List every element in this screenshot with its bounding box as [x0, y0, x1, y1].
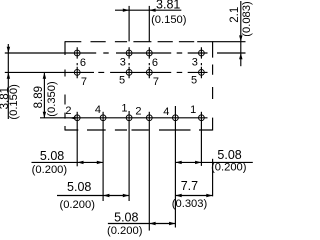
svg-text:5: 5: [191, 75, 197, 87]
arrow 2.1 upper: [239, 35, 242, 41]
vertical centerline col 201.4 (rows): [200, 47, 202, 78]
pad 3 group B: [199, 50, 205, 56]
extension line from pad 4A down: [102, 112, 104, 201]
svg-text:2: 2: [135, 105, 141, 117]
pad 2 group B: [146, 115, 152, 121]
right dimension line 2.1 vertical: [240, 1, 242, 66]
pad 6 group A: [74, 50, 80, 56]
svg-text:(0.200): (0.200): [32, 164, 68, 176]
extension line from pad 4B down: [174, 106, 176, 228]
pad 3 group A: [126, 50, 132, 56]
dimension line 5.08 left chain 1: [32, 161, 103, 163]
body outline right edge (dash-dot): [212, 41, 214, 130]
svg-text:3: 3: [192, 56, 198, 68]
svg-text:(0.200): (0.200): [211, 161, 247, 173]
arrow 5.08 chain3 left: [149, 222, 155, 225]
extension line from pad 2A down: [76, 112, 78, 167]
svg-text:2.1: 2.1: [229, 7, 241, 23]
left dimension line 3.81 vertical: [7, 44, 9, 119]
pad 5 group A: [126, 70, 132, 76]
pad 1 group A: [126, 115, 132, 121]
arrow 5.08 chain3 right: [169, 222, 175, 225]
vertical centerline col 77.2 (rows): [76, 47, 78, 78]
svg-text:(0.200): (0.200): [107, 225, 143, 237]
dimension line 5.08 left chain 2: [57, 195, 129, 197]
body outline top edge (dash-dot): [65, 41, 213, 43]
svg-text:(0.083): (0.083): [241, 1, 253, 37]
bottom row centerline y=117.8: [40, 117, 208, 119]
arrow 7.7 left: [175, 194, 181, 197]
svg-text:4: 4: [95, 104, 101, 116]
svg-text:(0.303): (0.303): [172, 198, 208, 210]
svg-text:6: 6: [80, 57, 86, 69]
svg-text:(0.150): (0.150): [8, 84, 20, 120]
dimension line 5.08 bottom chain 3: [108, 223, 176, 225]
top dim extension line from pad 6B up: [148, 6, 150, 42]
row2 centerline y=72.4: [5, 71, 208, 73]
top dimension line 3.81: [115, 9, 181, 11]
arrow top dim left: [123, 9, 129, 12]
arrow 5.08 right dim right: [195, 161, 201, 164]
svg-text:5.08: 5.08: [67, 180, 91, 194]
svg-text:5.08: 5.08: [40, 149, 64, 163]
svg-text:4: 4: [163, 106, 169, 118]
pad 7 group B: [146, 70, 152, 76]
svg-text:7: 7: [153, 76, 159, 88]
pad 6 group B: [146, 50, 152, 56]
arrow 8.89 upper: [43, 72, 46, 78]
body outline left edge (dash-dot): [64, 41, 66, 130]
arrow 7.7 right: [206, 194, 212, 197]
svg-text:7: 7: [81, 76, 87, 88]
svg-text:7.7: 7.7: [181, 179, 198, 193]
svg-text:5.08: 5.08: [114, 210, 138, 224]
svg-text:3.81: 3.81: [156, 0, 180, 11]
svg-text:(0.350): (0.350): [46, 81, 58, 117]
svg-text:1: 1: [190, 104, 196, 116]
body outline bottom edge (dash-dot): [65, 129, 213, 131]
arrow 3.81 left upper: [7, 47, 10, 53]
right 2.1 extension line from body top edge: [213, 41, 246, 43]
dimension line 5.08 right: [175, 161, 253, 163]
top dim extension line from pad 3A up: [128, 6, 130, 42]
arrow 8.89 lower: [43, 112, 46, 118]
pad 7 group A: [74, 70, 80, 76]
extension line from pad 1A down: [128, 111, 130, 201]
svg-text:(0.150): (0.150): [151, 14, 187, 26]
pad 1 group B: [199, 115, 205, 121]
extension line from pad 2B down: [148, 112, 150, 231]
arrow 5.08 chain2 right: [123, 194, 129, 197]
vertical centerline col 149.3 (rows): [148, 47, 150, 78]
svg-text:3: 3: [120, 56, 126, 68]
left dimension line 8.89 vertical: [43, 72, 45, 118]
arrow on bottom row line at pad 2A: [69, 116, 75, 119]
svg-text:1: 1: [121, 103, 127, 115]
svg-text:2: 2: [65, 105, 71, 117]
dimension line 7.7: [175, 195, 213, 197]
arrow 5.08 chain1 left: [77, 161, 83, 164]
arrow 2.1 lower: [239, 53, 242, 59]
pad 5 group B: [199, 70, 205, 76]
arrow top dim right: [149, 9, 155, 12]
arrow 5.08 chain2 left: [103, 194, 109, 197]
svg-text:6: 6: [152, 57, 158, 69]
arrow 5.08 chain1 right: [97, 161, 103, 164]
svg-text:5: 5: [119, 75, 125, 87]
vertical centerline col 129.1 (rows): [128, 47, 130, 78]
arrow 3.81 left lower: [7, 72, 10, 78]
pad 2 group A: [74, 115, 80, 121]
svg-text:(0.200): (0.200): [59, 199, 95, 211]
extension line from pad 1B down: [200, 112, 202, 166]
arrow 5.08 right dim left: [175, 161, 181, 164]
pad 4 group A: [100, 115, 106, 121]
pad 4 group B: [173, 115, 179, 121]
svg-text:5.08: 5.08: [217, 148, 241, 162]
extension line from body right edge down (7.7 dim): [212, 159, 214, 197]
svg-text:8.89: 8.89: [33, 86, 45, 108]
row1 centerline y=53: [5, 52, 246, 54]
